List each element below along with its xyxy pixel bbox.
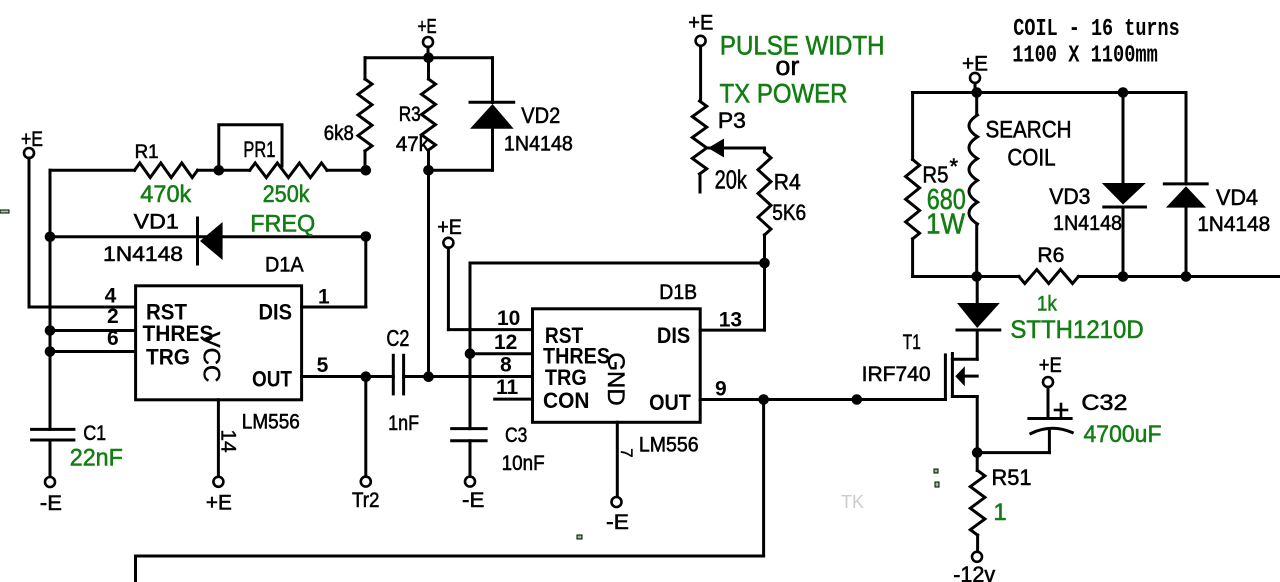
svg-text:13: 13 bbox=[719, 309, 742, 332]
svg-text:1k: 1k bbox=[1037, 293, 1057, 316]
svg-text:TX POWER: TX POWER bbox=[720, 79, 848, 109]
svg-text:SEARCH: SEARCH bbox=[986, 116, 1072, 143]
svg-text:-12v: -12v bbox=[953, 562, 995, 582]
svg-text:DIS: DIS bbox=[657, 323, 690, 348]
svg-text:VD1: VD1 bbox=[134, 211, 179, 234]
svg-text:1nF: 1nF bbox=[388, 412, 419, 435]
svg-text:R51: R51 bbox=[992, 465, 1032, 490]
svg-text:+E: +E bbox=[962, 53, 988, 76]
svg-text:5: 5 bbox=[317, 354, 329, 377]
svg-text:D1B: D1B bbox=[659, 281, 697, 304]
svg-text:COIL: COIL bbox=[1007, 145, 1055, 172]
svg-text:6k8: 6k8 bbox=[324, 122, 354, 145]
svg-text:LM556: LM556 bbox=[639, 434, 699, 457]
svg-text:14: 14 bbox=[217, 429, 240, 453]
svg-text:+E: +E bbox=[1039, 354, 1062, 377]
svg-text:TK: TK bbox=[841, 492, 864, 512]
svg-text:1W: 1W bbox=[926, 209, 966, 241]
svg-text:4700uF: 4700uF bbox=[1084, 421, 1162, 448]
svg-text:1N4148: 1N4148 bbox=[504, 133, 573, 156]
svg-text:8: 8 bbox=[500, 354, 512, 377]
svg-text:1100 X 1100mm: 1100 X 1100mm bbox=[1012, 43, 1158, 70]
svg-text:-E: -E bbox=[40, 492, 62, 515]
svg-text:PULSE WIDTH: PULSE WIDTH bbox=[720, 31, 885, 61]
svg-text:VD3: VD3 bbox=[1049, 184, 1090, 209]
svg-text:+E: +E bbox=[418, 16, 437, 38]
svg-text:FREQ: FREQ bbox=[250, 211, 315, 238]
svg-text:TRG: TRG bbox=[545, 365, 587, 390]
svg-text:1N4148: 1N4148 bbox=[1197, 213, 1270, 236]
svg-text:R1: R1 bbox=[135, 142, 159, 163]
svg-text:-E: -E bbox=[462, 489, 484, 512]
svg-text:7: 7 bbox=[617, 448, 636, 457]
svg-text:20k: 20k bbox=[715, 165, 748, 195]
svg-text:VCC: VCC bbox=[198, 332, 225, 383]
svg-text:P3: P3 bbox=[718, 108, 746, 133]
svg-text:-E: -E bbox=[606, 511, 629, 534]
svg-text:*: * bbox=[950, 154, 959, 179]
svg-text:2: 2 bbox=[107, 305, 119, 328]
svg-text:R4: R4 bbox=[774, 170, 801, 195]
svg-text:1: 1 bbox=[993, 499, 1006, 526]
svg-text:C1: C1 bbox=[83, 422, 106, 445]
svg-text:12: 12 bbox=[494, 331, 517, 354]
svg-text:D1A: D1A bbox=[265, 254, 304, 277]
svg-text:5K6: 5K6 bbox=[772, 200, 806, 225]
svg-text:COIL - 16 turns: COIL - 16 turns bbox=[1013, 16, 1179, 43]
svg-text:VD2: VD2 bbox=[521, 103, 560, 128]
svg-text:C3: C3 bbox=[505, 424, 527, 447]
svg-text:IRF740: IRF740 bbox=[862, 363, 931, 386]
svg-text:10: 10 bbox=[497, 307, 520, 330]
svg-text:GND: GND bbox=[602, 352, 629, 405]
svg-text:1N4148: 1N4148 bbox=[103, 243, 183, 266]
svg-text:CON: CON bbox=[543, 388, 589, 413]
svg-text:T1: T1 bbox=[903, 331, 921, 354]
svg-text:+E: +E bbox=[688, 12, 713, 35]
svg-text:9: 9 bbox=[715, 378, 727, 401]
svg-text:TRG: TRG bbox=[146, 345, 190, 370]
svg-text:LM556: LM556 bbox=[242, 411, 300, 434]
svg-text:22nF: 22nF bbox=[70, 445, 123, 472]
svg-text:1N4148: 1N4148 bbox=[1053, 212, 1122, 235]
svg-text:470k: 470k bbox=[140, 181, 192, 208]
svg-text:OUT: OUT bbox=[252, 367, 292, 392]
svg-text:250k: 250k bbox=[263, 181, 311, 208]
svg-text:47k: 47k bbox=[396, 133, 429, 156]
svg-text:DIS: DIS bbox=[259, 300, 293, 325]
svg-text:or: or bbox=[775, 51, 799, 81]
svg-text:1: 1 bbox=[318, 286, 330, 309]
svg-text:STTH1210D: STTH1210D bbox=[1010, 316, 1143, 344]
svg-text:R3: R3 bbox=[399, 103, 421, 126]
svg-text:C2: C2 bbox=[386, 325, 409, 351]
svg-text:10nF: 10nF bbox=[502, 452, 545, 475]
svg-text:+E: +E bbox=[437, 216, 462, 239]
svg-text:6: 6 bbox=[107, 327, 119, 350]
svg-text:PR1: PR1 bbox=[243, 137, 275, 162]
svg-text:OUT: OUT bbox=[649, 390, 691, 415]
svg-text:11: 11 bbox=[496, 376, 519, 399]
svg-text:Tr2: Tr2 bbox=[352, 489, 380, 512]
svg-text:+E: +E bbox=[21, 128, 43, 151]
svg-text:R6: R6 bbox=[1037, 244, 1064, 267]
svg-text:VD4: VD4 bbox=[1216, 185, 1258, 210]
svg-text:+E: +E bbox=[206, 492, 232, 515]
svg-text:C32: C32 bbox=[1081, 390, 1127, 415]
